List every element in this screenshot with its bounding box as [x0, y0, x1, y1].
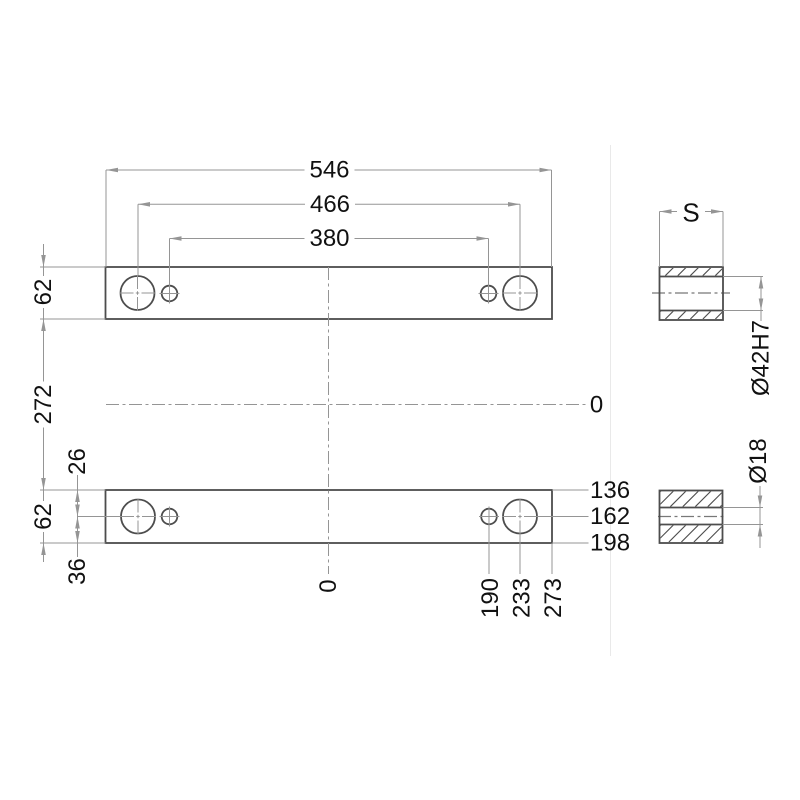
svg-text:466: 466 [310, 191, 350, 218]
svg-text:26: 26 [64, 448, 91, 475]
svg-text:272: 272 [30, 384, 57, 424]
svg-text:273: 273 [540, 578, 567, 618]
svg-text:0: 0 [315, 579, 342, 592]
svg-text:36: 36 [64, 558, 91, 585]
svg-text:136: 136 [590, 477, 630, 504]
svg-text:190: 190 [477, 578, 504, 618]
svg-text:Ø42H7: Ø42H7 [748, 320, 775, 396]
svg-text:162: 162 [590, 503, 630, 530]
svg-text:546: 546 [309, 157, 349, 184]
svg-text:62: 62 [30, 503, 57, 530]
svg-text:Ø18: Ø18 [745, 438, 772, 483]
svg-text:0: 0 [590, 392, 603, 419]
svg-text:S: S [682, 198, 699, 228]
svg-text:380: 380 [309, 225, 349, 252]
svg-text:233: 233 [509, 578, 536, 618]
svg-text:198: 198 [590, 530, 630, 557]
svg-text:62: 62 [30, 279, 57, 306]
